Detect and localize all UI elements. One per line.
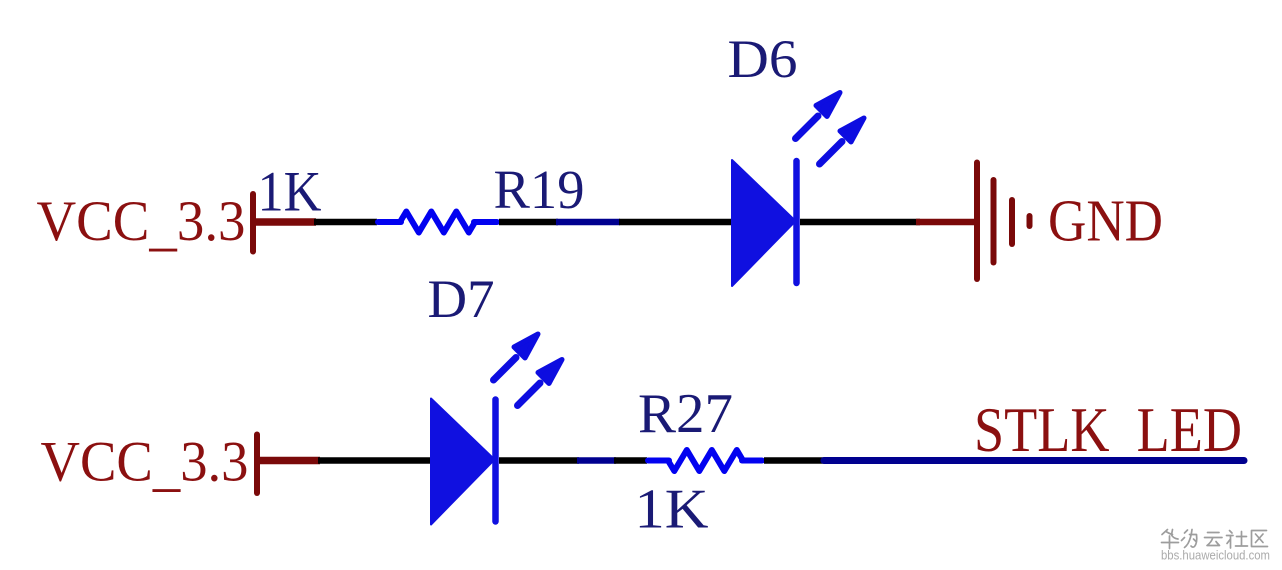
power port VCC_3.3 (top) bar symbol (250, 194, 256, 252)
designator label D7 (428, 269, 495, 329)
resistor R19 zigzag body (400, 212, 475, 233)
designator label D6 (728, 29, 798, 89)
wire (bottom, power stub to LED D7 anode) (318, 457, 432, 464)
ground symbol bar 2 (991, 180, 997, 263)
power port VCC_3.3 (bottom) bar symbol (254, 435, 260, 494)
power port VCC_3.3 (bottom) label (41, 431, 249, 498)
ground symbol bar 1 (974, 163, 980, 280)
resistor R19 right lead (474, 219, 497, 225)
designator label R19 (494, 159, 585, 220)
svg-text:STLK_LED: STLK_LED (974, 395, 1242, 465)
svg-text:D7: D7 (428, 269, 495, 329)
yun (1205, 533, 1223, 546)
power port VCC_3.3 (bottom) stub (257, 457, 320, 465)
resistor R27 right lead (742, 458, 762, 464)
power port VCC_3.3 (top) label (37, 190, 246, 257)
wire (top, R19 to navy segment) (499, 219, 558, 226)
LED D7 emission arrow 2 (518, 360, 563, 406)
LED D6 emission arrow 1 (796, 93, 841, 139)
wire (bottom, LED D7 cathode to navy segment) (499, 457, 579, 464)
qu (1252, 531, 1268, 547)
svg-text:R19: R19 (494, 159, 585, 220)
hua (1162, 530, 1179, 549)
LED D6 cathode bar (793, 161, 800, 283)
svg-text:D6: D6 (728, 29, 798, 89)
wire (bottom, navy net wire to STLK_LED) (824, 457, 1244, 464)
ground symbol bar 4 (1027, 216, 1033, 226)
resistor R27 left lead (648, 458, 669, 464)
svg-text:VCC_3.3: VCC_3.3 (37, 190, 246, 257)
wire (top, navy segment to LED D6 anode) (619, 219, 733, 226)
ground stub (916, 219, 974, 226)
wire (top, LED D6 cathode to ground stub) (800, 219, 920, 226)
ground symbol bar 3 (1009, 200, 1015, 244)
wire (top, power stub to R19) (314, 219, 377, 226)
svg-text:1K: 1K (635, 479, 709, 541)
LED D7 triangle (431, 399, 495, 525)
wire (top, navy segment under R19 label) (556, 219, 620, 226)
LED D6 triangle (732, 160, 796, 286)
LED D6 emission arrow 2 (820, 118, 865, 164)
value label 1K of R27 (635, 479, 709, 541)
watermark url text (1161, 549, 1270, 563)
watermark Chinese characters (1162, 530, 1268, 549)
svg-text:R27: R27 (638, 383, 733, 445)
resistor R27 zigzag body (668, 450, 743, 471)
svg-text:bbs.huaweicloud.com: bbs.huaweicloud.com (1161, 549, 1270, 563)
net label STLK_LED (974, 395, 1242, 465)
resistor R19 left lead (378, 219, 401, 225)
svg-text:1K: 1K (258, 161, 322, 224)
LED D7 cathode bar (492, 400, 499, 522)
wire (bottom, navy segment to R27) (614, 457, 647, 464)
svg-text:GND: GND (1048, 188, 1163, 254)
power port VCC_3.3 (top) stub (253, 218, 316, 226)
wire (bottom, navy segment) (577, 457, 616, 464)
designator label R27 (638, 383, 733, 445)
LED D7 emission arrow 1 (494, 334, 539, 380)
net label GND (1048, 188, 1163, 254)
wire (bottom, R27 to navy net wire) (764, 457, 826, 464)
she (1227, 531, 1248, 549)
svg-text:VCC_3.3: VCC_3.3 (41, 431, 249, 498)
wei (1182, 530, 1197, 548)
value label 1K of R19 (258, 161, 322, 224)
